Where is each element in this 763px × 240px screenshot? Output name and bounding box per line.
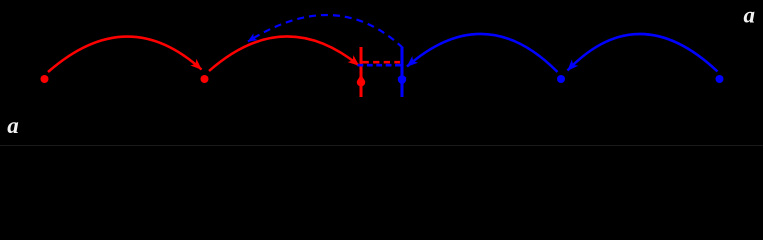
svg-text:a: a: [7, 113, 19, 138]
svg-text:a: a: [744, 3, 756, 28]
